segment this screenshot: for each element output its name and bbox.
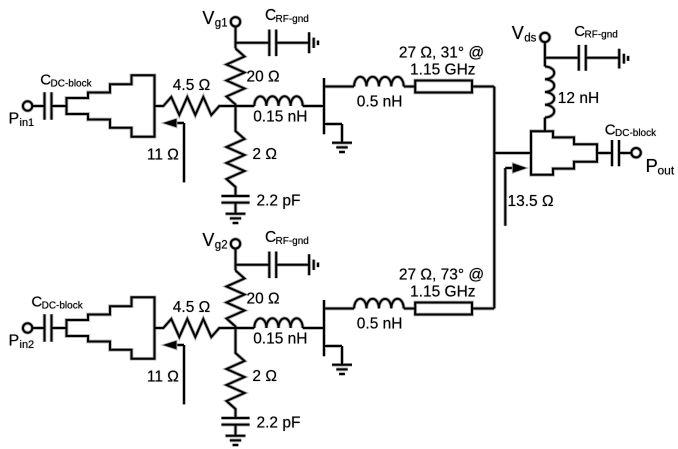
svg-text:12 nH: 12 nH xyxy=(558,90,599,107)
svg-text:in2: in2 xyxy=(20,339,35,351)
svg-text:V: V xyxy=(512,23,524,43)
svg-text:ds: ds xyxy=(524,33,536,45)
svg-text:in1: in1 xyxy=(20,117,35,129)
svg-text:27 Ω, 31° @: 27 Ω, 31° @ xyxy=(399,45,484,62)
svg-text:g1: g1 xyxy=(215,18,228,30)
svg-text:V: V xyxy=(202,8,214,28)
svg-text:DC-block: DC-block xyxy=(42,301,84,312)
svg-text:g2: g2 xyxy=(215,240,228,252)
svg-text:P: P xyxy=(9,110,20,127)
svg-text:DC-block: DC-block xyxy=(51,79,93,90)
svg-text:out: out xyxy=(658,164,675,178)
svg-text:DC-block: DC-block xyxy=(615,128,657,139)
svg-text:P: P xyxy=(9,332,20,349)
svg-text:13.5 Ω: 13.5 Ω xyxy=(508,193,554,210)
svg-text:V: V xyxy=(202,230,214,250)
svg-text:P: P xyxy=(646,155,658,176)
svg-text:27 Ω, 73° @: 27 Ω, 73° @ xyxy=(399,267,484,284)
svg-text:RF-gnd: RF-gnd xyxy=(585,30,618,41)
